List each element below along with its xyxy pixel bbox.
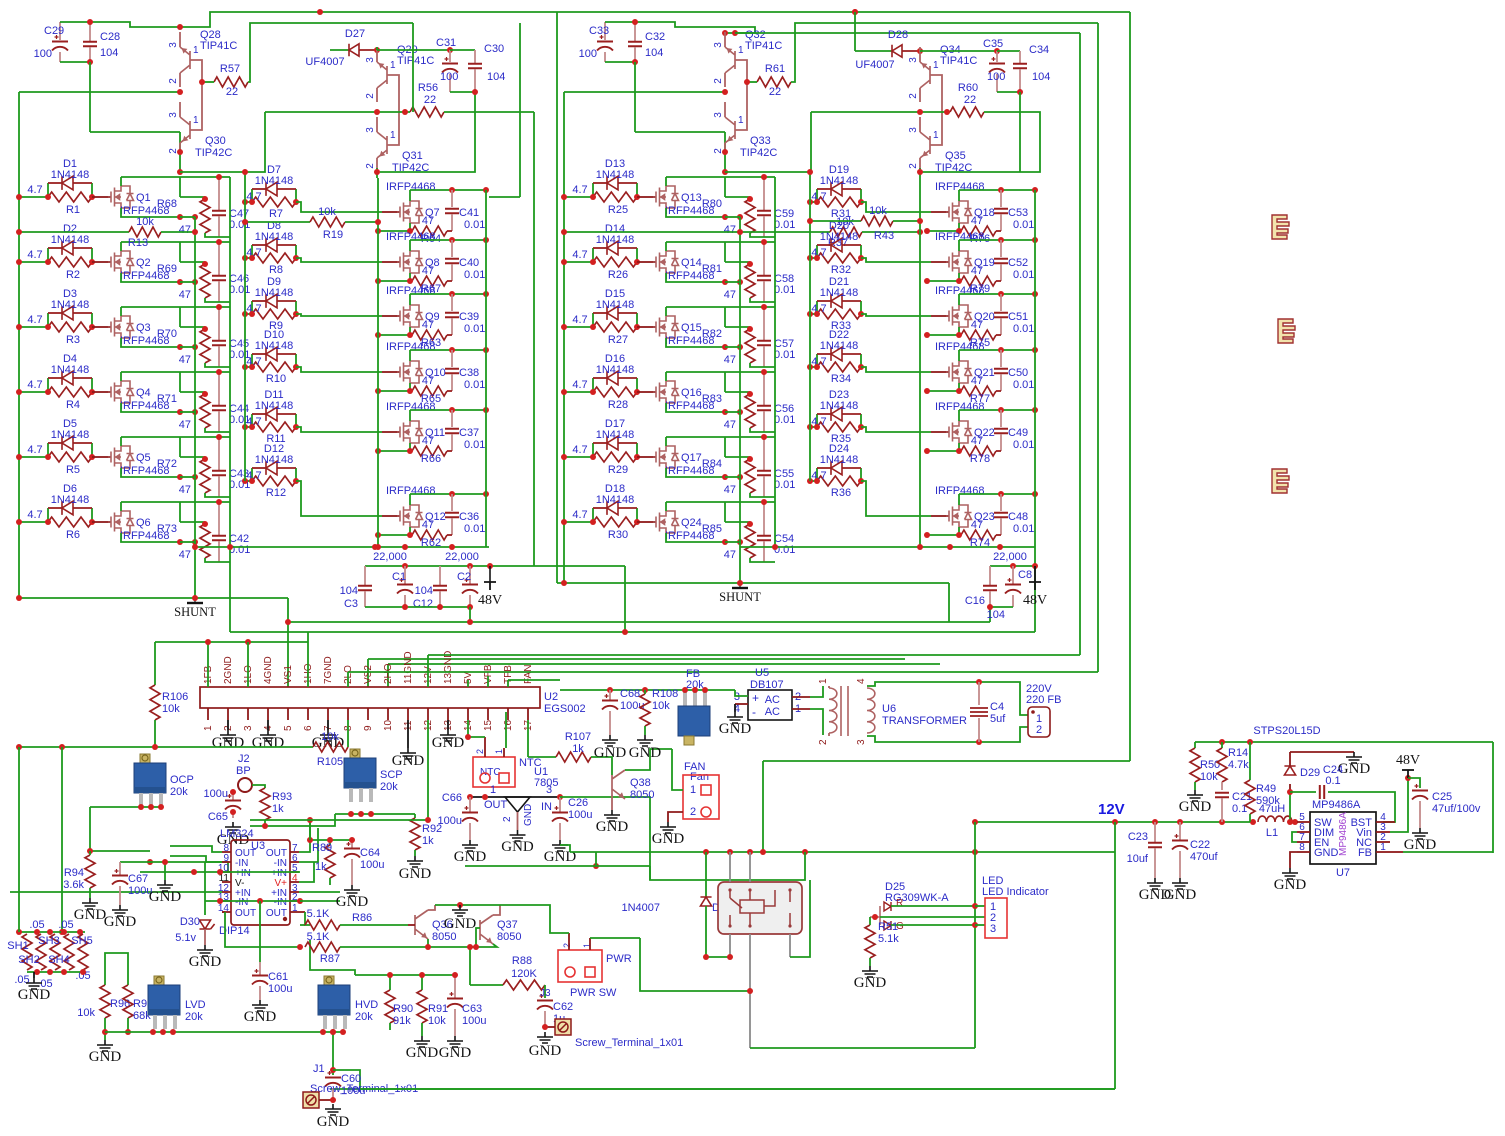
junction [177,539,183,545]
U2 pin 13 13GND [447,708,449,720]
junction [16,595,22,601]
ground [660,822,676,833]
svg-text:R32: R32 [831,264,851,276]
svg-text:1: 1 [490,784,496,796]
junction [807,255,813,261]
wire - source down [666,208,725,217]
svg-text:R106: R106 [162,691,188,703]
wire [975,905,985,907]
U7 pin 2 NC [1376,841,1390,843]
svg-text:IN: IN [541,801,552,813]
wire [250,819,428,821]
junction [917,109,923,115]
resistor R1 [19,196,48,198]
svg-text:Q14: Q14 [681,257,702,269]
wire - 22000 top rail left [195,546,489,548]
junction [542,1024,548,1030]
wire [105,953,128,977]
wire [640,938,750,991]
svg-text:4.7: 4.7 [27,184,42,196]
svg-text:220 FB: 220 FB [1026,694,1061,706]
wire [747,81,757,83]
U2 pin 11 11GND [407,708,409,720]
svg-text:R10: R10 [266,373,286,385]
svg-text:GND: GND [1404,837,1437,853]
svg-text:C52: C52 [1008,257,1028,269]
svg-text:1: 1 [390,60,396,71]
junction [242,364,248,370]
svg-text:1: 1 [292,903,298,914]
wire [605,22,755,33]
wire - source bus [927,534,959,536]
svg-text:10: 10 [383,719,394,731]
wire - NTC to 5V [467,720,469,737]
wire - bottom [205,363,230,367]
junction [425,944,431,950]
svg-text:C12: C12 [413,598,433,610]
junction [87,59,93,65]
svg-text:47: 47 [971,319,983,331]
wire - shunt2 row [557,582,949,584]
svg-text:10k: 10k [428,1015,446,1027]
capacitor C3 [364,566,366,585]
IC U2 EGS002 [200,687,540,708]
U2 pin 9 VS2 [367,708,369,720]
diode D24 [816,468,818,481]
svg-text:R85: R85 [702,523,722,535]
ground [82,898,98,909]
junction [34,969,40,975]
svg-text:Q30: Q30 [205,135,226,147]
svg-text:1k: 1k [315,861,327,873]
resistor R62 [409,527,411,535]
svg-text:C8: C8 [1018,569,1032,581]
U3 pin 7 [290,851,299,853]
transistor Q29 [376,47,378,62]
svg-text:1N4148: 1N4148 [596,299,635,311]
svg-text:1N4148: 1N4148 [596,494,635,506]
U3 pin 11 [222,881,231,883]
capacitor C29 [59,22,61,40]
wire - top 742 rail [1195,741,1493,743]
svg-text:R91: R91 [428,1003,448,1015]
diode D14 [592,248,594,262]
svg-text:1: 1 [818,678,829,684]
svg-text:1k: 1k [572,743,584,755]
svg-text:RG309WK-A: RG309WK-A [885,892,949,904]
wire - pin17 FAN down [527,720,529,757]
svg-text:R93: R93 [272,791,292,803]
wire [90,807,150,851]
svg-text:C22: C22 [1190,839,1210,851]
resistor R93 [252,785,265,788]
wire - bottom [750,493,775,497]
resistor SH2 [36,934,46,970]
junction [242,169,248,175]
junction [16,929,22,935]
svg-text:104: 104 [1032,71,1050,83]
wire [376,47,378,50]
svg-text:Q4: Q4 [136,387,151,399]
svg-text:C51: C51 [1008,311,1028,323]
resistor R4 [19,391,48,393]
power SHUNT 1 [194,598,196,603]
svg-text:8: 8 [1299,842,1305,853]
resistor R30 [564,521,593,523]
svg-text:R81: R81 [702,263,722,275]
junction [561,259,567,265]
wire - pin1 up [207,642,209,687]
junction [177,344,183,350]
resistor R19 [245,221,310,223]
svg-text:Q38: Q38 [630,777,651,789]
junction [16,454,22,460]
U3 pin 14 [222,911,231,913]
U3 pin 3 [290,891,299,893]
junction [447,47,453,53]
resistor R34 [810,366,817,368]
U7 pin 7 EN [1297,841,1310,843]
ground [452,905,468,916]
svg-text:Q3: Q3 [136,322,151,334]
junction [16,519,22,525]
svg-text:STPS20L15D: STPS20L15D [1253,725,1320,737]
wire - row 1048 [750,1047,975,1049]
junction [703,849,709,855]
junction [561,194,567,200]
junction [976,679,982,685]
junction [607,687,613,693]
transistor Q12 [382,515,397,517]
svg-text:R13: R13 [128,237,148,249]
wire - pin16 TFB up [507,680,509,687]
wire - drain to top rail [120,242,122,251]
junction [202,326,208,332]
wire - pin1 [299,911,305,913]
junction [722,539,728,545]
svg-text:C61: C61 [268,971,288,983]
resistor R86 [300,924,305,926]
junction [956,228,962,234]
junction [561,389,567,395]
resistor R66 [409,443,411,451]
svg-text:0.01: 0.01 [1013,269,1034,281]
junction [1219,739,1225,745]
U3 pin 13 [222,900,231,902]
wire - left colB bus [244,172,246,481]
resistor R2 [19,261,48,263]
wire - rail 852 [570,851,1115,853]
svg-text:1: 1 [390,130,396,141]
wire - right 22000 rail [740,546,1035,548]
diode D2 [47,248,49,262]
wire [287,598,289,687]
wire - drain to top rail [665,177,667,186]
svg-text:C48: C48 [1008,511,1028,523]
svg-text:1N4007: 1N4007 [621,902,660,914]
svg-text:GND: GND [212,735,245,751]
wire [333,1070,360,1089]
resistor R85 [724,502,726,522]
resistor R64 [409,223,411,231]
junction [727,954,733,960]
wire - LED wires [891,905,975,907]
wire - right colA vertical buses [739,217,741,583]
svg-text:PWR: PWR [606,953,632,965]
svg-text:R26: R26 [608,269,628,281]
wire - Q36 emitter [427,939,429,947]
svg-text:AC: AC [765,706,780,718]
svg-text:R27: R27 [608,334,628,346]
junction [387,972,393,978]
wire - x534 drop [533,112,535,566]
power SHUNT 2 [739,583,741,588]
wire - Q29 base row [265,111,410,113]
junction [467,944,473,950]
svg-text:D29: D29 [1300,767,1320,779]
wire - drain to top rail [120,177,122,186]
junction [449,347,455,353]
svg-text:1N4148: 1N4148 [255,340,294,352]
svg-text:100: 100 [440,71,458,83]
capacitor C63 [454,975,456,998]
svg-text:4GND: 4GND [263,656,274,684]
wire - row747 [19,746,313,748]
wire - 48V interconnect [624,566,626,632]
svg-text:1: 1 [1380,842,1386,853]
ground [97,1040,113,1051]
svg-text:5.1K: 5.1K [307,931,330,943]
junction [227,544,233,550]
svg-text:R36: R36 [831,487,851,499]
svg-text:GND: GND [454,849,487,865]
diode D10 [251,354,253,367]
svg-text:L1: L1 [1266,827,1278,839]
svg-text:C3: C3 [344,598,358,610]
ground [862,966,878,977]
wire - to gate [861,202,931,212]
wire - pin14 [222,911,225,913]
svg-text:1N4148: 1N4148 [820,287,859,299]
wire - left colC buses [377,178,379,547]
svg-text:1k: 1k [422,835,434,847]
svg-text:104: 104 [987,609,1005,621]
wire [444,111,534,113]
svg-text:1: 1 [738,115,744,126]
svg-text:104: 104 [340,585,358,597]
svg-text:4.7: 4.7 [572,314,587,326]
svg-text:47: 47 [422,435,434,447]
svg-text:R88: R88 [512,955,532,967]
ground [637,735,653,746]
svg-text:3: 3 [713,112,724,118]
svg-text:UF4007: UF4007 [305,56,344,68]
svg-text:0.01: 0.01 [774,349,795,361]
junction [747,261,753,267]
wire - pin7/6 right [299,820,310,852]
svg-text:0.01: 0.01 [464,439,485,451]
svg-text:R7: R7 [269,208,283,220]
svg-text:TIP41C: TIP41C [200,40,237,52]
svg-text:UF4007: UF4007 [855,59,894,71]
wire - to gate [296,258,382,262]
svg-text:47: 47 [422,319,434,331]
svg-text:20k: 20k [355,1011,373,1023]
svg-text:1N4148: 1N4148 [51,364,90,376]
resistor R60 [950,107,984,117]
junction [402,604,408,610]
svg-text:TIP42C: TIP42C [195,147,232,159]
svg-text:47: 47 [179,224,191,236]
diode D3 [47,313,49,327]
junction [1010,563,1016,569]
svg-text:C30: C30 [484,43,504,55]
U3 pin 1 [290,911,299,913]
wire [590,937,640,939]
wire - 12V pin down [427,720,429,820]
svg-text:GND: GND [244,1009,277,1025]
capacitor C53 [1000,190,1002,207]
capacitor C32 [634,22,636,41]
svg-text:3.6k: 3.6k [63,879,84,891]
resistor SH5 [78,934,88,970]
capacitor C38 [451,350,453,367]
capacitor C55 [763,437,765,470]
resistor R71 [179,372,181,392]
wire - drain to top rail [120,307,122,316]
ground [112,905,128,916]
wire - NTC pin1 up [505,712,507,748]
svg-text:1N4148: 1N4148 [596,234,635,246]
svg-text:4.7: 4.7 [27,249,42,261]
svg-text:10k: 10k [77,1007,95,1019]
svg-text:Q31: Q31 [402,150,423,162]
resistor R14 [1221,742,1223,748]
svg-text:R4: R4 [66,399,80,411]
svg-text:LVD: LVD [185,999,206,1011]
wire - to gate [861,427,931,432]
junction [1405,775,1411,781]
wire - drain to top rail [409,190,411,201]
svg-text:C68: C68 [620,688,640,700]
svg-text:R43: R43 [874,230,894,242]
resistor R63 [409,327,411,335]
junction [407,388,413,394]
transistor Q21 [931,371,946,373]
junction [807,311,813,317]
wire - pin15 VFB up [487,676,489,687]
resistor R80 [724,177,726,197]
capacitor C35 [996,51,998,62]
U2 pin 5 VS1 [287,708,289,720]
capacitor C43 [218,437,220,470]
resistor R106 [154,642,156,685]
junction [102,1029,108,1035]
junction [330,1067,336,1073]
svg-text:R78: R78 [970,453,990,465]
junction [747,521,753,527]
svg-text:R68: R68 [157,198,177,210]
svg-text:C31: C31 [436,37,456,49]
resistor R75 [958,327,960,335]
svg-text:Q16: Q16 [681,387,702,399]
ground [344,885,360,896]
wire - to gate [861,367,931,372]
svg-text:Q17: Q17 [681,452,702,464]
junction [242,424,248,430]
svg-text:SHUNT: SHUNT [719,590,761,604]
resistor R26 [564,261,593,263]
transistor Q13 [637,196,653,198]
diode D26 1N4007 [705,852,707,897]
junction [807,218,813,224]
svg-text:MP9486A: MP9486A [1312,799,1361,811]
wire - drain to top rail [958,410,960,421]
capacitor C33 [604,22,606,40]
transistor Q32 [724,32,726,47]
svg-text:7805: 7805 [534,777,558,789]
wire [564,91,725,93]
junction [242,311,248,317]
wire [104,1032,106,1040]
svg-text:0.01: 0.01 [464,379,485,391]
wire - drain to top rail [958,350,960,361]
svg-text:R82: R82 [702,328,722,340]
svg-text:2: 2 [365,163,376,169]
junction [987,604,993,610]
wire [705,930,707,957]
svg-text:SH3: SH3 [38,935,59,947]
wire - DIM EN link [1292,832,1297,842]
resistor R87 [305,942,340,952]
junction [307,817,313,823]
junction [722,149,728,155]
svg-text:4.7k: 4.7k [1228,759,1249,771]
junction [177,214,183,220]
capacitor C41 [451,190,453,207]
svg-text:4.7: 4.7 [27,444,42,456]
wire - to gate [296,202,382,212]
U2 pin 15 VFB [487,708,489,720]
svg-text:4.7: 4.7 [27,314,42,326]
U3 pin 5 [290,871,299,873]
svg-text:10k: 10k [869,205,887,217]
wire - drain to top rail [409,410,411,421]
wire [332,1070,334,1075]
resistor R36 [810,480,817,482]
svg-text:J2: J2 [238,753,250,765]
svg-text:10uf: 10uf [1127,853,1149,865]
svg-text:R71: R71 [157,393,177,405]
wire - Q37 emitter [476,944,497,947]
wire - source bus [378,280,410,282]
wire - secondary loop [867,682,1028,715]
wire [605,61,635,63]
svg-text:R2: R2 [66,269,80,281]
capacitor C39 [451,294,453,311]
junction [998,187,1004,193]
resistor R10 [245,366,252,368]
svg-text:GND: GND [501,839,534,855]
junction [16,744,22,750]
wire [179,152,181,172]
svg-text:47: 47 [179,354,191,366]
wire - OCP legs [90,806,160,808]
svg-text:104: 104 [100,47,118,59]
wire - source bus [378,230,410,232]
junction [449,291,455,297]
capacitor C24 [1290,791,1316,793]
